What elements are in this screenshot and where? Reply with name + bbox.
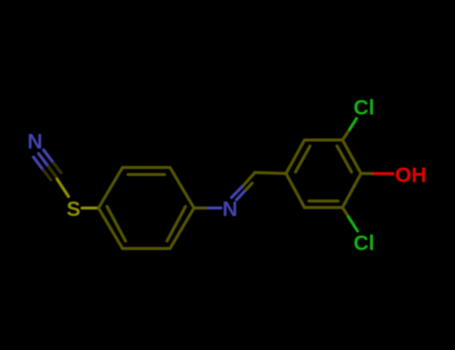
bond ring1-N blue half	[208, 207, 221, 210]
ring 2 inner double bond upper-right	[337, 146, 352, 172]
ring 1 inner double bond top	[128, 173, 165, 176]
triple bond N#C lower side line olive half	[43, 170, 50, 180]
bond ring2-OH olive half	[361, 172, 374, 175]
svg-text:N: N	[27, 131, 42, 154]
imine double bond second line olive half	[246, 183, 252, 190]
bond CH-ring2	[255, 173, 286, 174]
ring 2 inner double bond upper-left	[296, 146, 311, 172]
triple bond N#C upper side line olive half	[54, 163, 61, 173]
ring 2 inner double bond bottom	[309, 200, 338, 203]
triple bond N#C upper side line blue half	[44, 150, 53, 162]
svg-text:N: N	[222, 198, 237, 221]
ring 1 inner double bond lower-right	[167, 207, 186, 242]
bond ring2-Cl bottom green half	[349, 217, 358, 231]
bond ring2-Cl top green half	[350, 119, 357, 130]
bond ring2-Cl top olive half	[343, 129, 350, 140]
bond ring2-OH red half	[374, 172, 393, 175]
benzene ring 2 outline	[286, 140, 361, 208]
triple bond N#C lower side line blue half	[33, 157, 42, 169]
triple bond N#C center line blue half	[39, 154, 48, 166]
svg-text:OH: OH	[395, 164, 427, 187]
bond ring2-Cl bottom olive half	[343, 208, 349, 218]
bond S-ring1	[82, 207, 99, 210]
benzene ring 1 outline	[99, 168, 195, 249]
bond ring1-N olive half	[194, 207, 208, 210]
svg-text:Cl: Cl	[354, 232, 375, 255]
bond C-S	[57, 179, 69, 197]
ring 1 inner double bond lower-left	[107, 207, 126, 242]
imine double bond main line olive half	[244, 173, 256, 186]
imine double bond main line blue half	[232, 185, 244, 197]
svg-text:S: S	[66, 198, 80, 221]
triple bond N#C center line olive half	[49, 167, 57, 178]
imine double bond second line blue half	[237, 190, 246, 200]
svg-text:Cl: Cl	[354, 97, 375, 120]
